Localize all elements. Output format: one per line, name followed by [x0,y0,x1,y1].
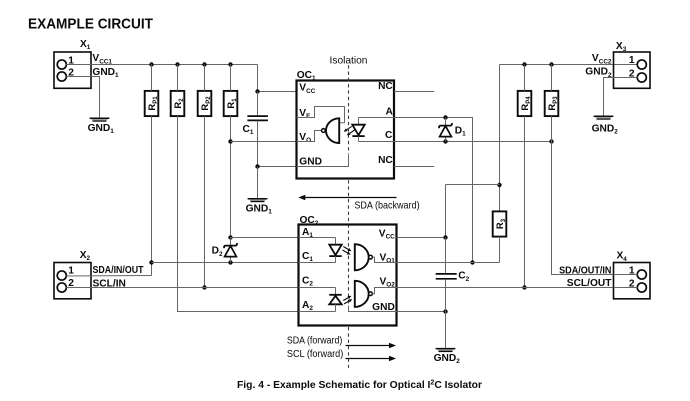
junction C1/GND line [255,164,259,168]
wire VCC2 rail [500,64,638,66]
pin number X3-2 [629,68,635,79]
gate OC2 bottom [355,281,369,307]
LED OC2 top [329,238,341,263]
pin label OC1 VCC [299,83,315,95]
pin circle X3-1 [637,60,646,69]
label X3 [616,41,627,53]
op-amp U1 optocoupler OC1 box [297,81,395,179]
label VCC2 net [592,53,612,65]
LED OC1 anode wire [359,117,395,119]
ground GND2 (X3) [592,116,619,135]
wire SCL out line [397,287,614,289]
wire OC2 GND out [397,311,446,313]
wire X1 pin2 to GND1 [66,77,99,118]
resistor RP4 [518,91,532,116]
wire RP1 top [151,65,153,91]
junction VCC1/RP2 [202,62,206,66]
wire C2 to GND2 symbol [445,312,447,348]
junction VCC1/C1 top [255,89,259,93]
resistor RP3 [545,91,559,116]
wire R1 bottom to A1 [230,116,232,237]
junction VCC2/RP4 [522,62,526,66]
svg-text:A: A [385,107,393,118]
wire RP2 top [204,65,206,91]
svg-text:SDA/IN/OUT: SDA/IN/OUT [93,265,145,276]
pin label OC2 A1 [302,227,313,239]
svg-text:NC: NC [378,81,393,92]
label D2 [212,246,223,258]
junction RP2/SCL line [202,285,206,289]
pin circle X4-1 [637,270,646,279]
pin circle X2-1 [57,271,66,280]
light arrows OC2 top [343,247,352,255]
wire OC2 C2 internal [299,287,336,289]
pin circle X1-1 [57,60,66,69]
junction C/D1 [443,139,447,143]
label X4 [617,251,628,263]
bubble OC2 bottom output [369,292,373,296]
svg-text:GND: GND [299,156,322,167]
wire RP4 bottom to SCL out [524,116,526,287]
wire VCC1 rail [66,64,257,66]
wire X4 pin1 internal [614,274,638,276]
junction VCC2/RP3 [549,62,553,66]
label OC2 [300,215,319,227]
label C2 [458,271,469,283]
wire OC1 VE loop [297,107,345,123]
wire C line [394,141,552,143]
pin label OC1 GND [299,156,322,167]
wire VCC1 to OC1 VCC pin [258,65,297,92]
wire OC2 VCC out [397,237,446,239]
wire OC2 C1 internal [299,262,336,264]
LED OC1 cathode wire [359,141,395,143]
label D1 [455,126,466,138]
pin label OC2 A2 [302,300,313,312]
pin number X4-2 [629,279,635,290]
svg-text:Isolation: Isolation [330,56,368,67]
diode D1 zener [439,118,452,142]
connector X1 [54,52,91,88]
wire X3 pin2 to GND2 [604,78,638,116]
wire branch to C2 column [446,185,500,238]
pin circle X2-2 [57,283,66,292]
pin label OC1 VE [299,108,311,120]
svg-text:SCL (forward): SCL (forward) [287,349,343,360]
junction VCC1/R2 [175,62,179,66]
label C1 [243,124,254,136]
wire R1 top [230,65,232,91]
connector X2 [54,263,91,299]
label SCL/IN [93,279,126,290]
wire OC2 GND internal [349,306,397,312]
junction C/RP3 [549,139,553,143]
pin number X4-1 [629,266,635,277]
pin circle X3-2 [637,73,646,82]
pin circle X1-2 [57,72,66,81]
label GND1 net [92,67,119,79]
pin label OC1 VO [299,132,311,144]
wire OC1 NC top stub [394,91,434,93]
label Isolation [330,56,368,67]
label VCC1 net [92,53,112,65]
light arrows OC2 bottom [343,296,352,304]
pin label OC2 C1 [302,251,313,263]
pin number X2-1 [68,266,74,277]
junction RP4/SCL out [522,285,526,289]
pin label OC2 VCC [379,228,395,240]
junction R1/VO line [228,139,232,143]
svg-text:GND1: GND1 [92,67,119,79]
label SDA (forward) [287,336,342,347]
wire R2 bottom to A2 [178,116,299,311]
label SDA (backward) [354,201,419,212]
label OC1 [297,70,316,82]
diode D2 zener [224,238,237,263]
junction A/D1 [443,115,447,119]
pin label OC1 C [385,130,393,141]
LED OC1 [352,118,364,142]
wire OC1 VO pin [231,141,297,143]
op-amp U2 optocoupler OC2 box [299,225,397,326]
junction D2/C1 line [228,260,232,264]
svg-text:C: C [385,130,393,141]
junction A/VO1 [470,260,474,264]
svg-text:GND1: GND1 [246,204,273,216]
wire OC2 A1 internal [299,237,336,239]
caption Fig. 4 [237,380,482,391]
junction VCC1/R1 [228,62,232,66]
LED OC2 bottom [329,288,341,312]
svg-text:EXAMPLE CIRCUIT: EXAMPLE CIRCUIT [28,15,153,32]
gate OC2 top [355,244,369,270]
wire RP4 top [524,65,526,91]
junction VCC1/RP1 [149,62,153,66]
wire X4 pin2 internal [614,287,638,289]
wire A line [394,118,473,263]
svg-text:GND2: GND2 [592,123,619,135]
junction C2/GND [443,309,447,313]
connector X4 [614,263,651,299]
pin number X2-2 [68,278,74,289]
junction VCC2/R3 branch [497,183,501,187]
gate OC1 detector [326,118,339,143]
junction R1/A1 line [228,235,232,239]
isolation barrier dashed line [348,65,350,368]
arrow SDA backward [298,195,396,200]
svg-text:SDA/OUT/IN: SDA/OUT/IN [559,265,611,276]
label SCL (forward) [287,349,343,360]
wire OC1 VO to bubble [297,131,322,142]
connector X3 [614,52,651,88]
label X1 [80,39,91,51]
wire RP3 top [551,65,553,91]
junction C2/VCC [443,235,447,239]
pin label OC1 NC top [378,81,393,92]
wire OC1 GND pin [258,166,297,168]
wire OC1 GND internal [297,155,349,167]
label X2 [80,250,91,262]
svg-text:1: 1 [629,55,635,66]
ground GND1 (C1) [246,199,273,216]
resistor RP2 [198,91,212,116]
bubble OC1 output [322,129,326,133]
label SDA/IN/OUT [93,265,145,276]
svg-text:NC: NC [378,155,393,166]
ground GND2 (C2) [434,349,461,366]
wire RP1 bottom to SDA [151,116,153,275]
label SCL/OUT [567,278,612,289]
title EXAMPLE CIRCUIT [28,15,153,32]
wire C1 to GND1 symbol [257,167,259,199]
arrow SCL forward [346,356,397,361]
ground GND1 (X1) [88,118,115,135]
svg-text:1: 1 [68,266,74,277]
svg-text:Fig. 4 - Example Schematic for: Fig. 4 - Example Schematic for Optical I… [237,380,482,391]
pin number X1-2 [68,68,74,79]
pin number X1-1 [68,55,74,66]
wire VO1 line [397,262,500,264]
resistor RP1 [145,91,159,116]
wire OC2 VO2 internal [372,288,396,294]
svg-text:GND1: GND1 [88,123,115,135]
label GND2 net [585,67,612,79]
wire SCL in [66,287,298,289]
pin label OC2 C2 [302,276,313,288]
svg-text:SDA (forward): SDA (forward) [287,336,342,347]
resistor R1 [224,91,238,116]
wire OC1 NC bottom stub [394,166,434,168]
arrow SDA forward [346,343,397,348]
svg-text:SDA (backward): SDA (backward) [354,201,419,212]
pin label OC2 GND [372,302,395,313]
wire RP3 bottom to SDA out [552,116,614,274]
wire OC2 VO1 internal [372,257,396,262]
label SDA/OUT/IN [559,265,611,276]
junction RP1/C1 line [149,260,153,264]
wire R3 bottom [499,237,501,263]
wire R2 top [177,65,179,91]
light arrows OC1 [344,126,355,135]
pin label OC2 VO1 [379,252,395,264]
pin circle X4-2 [637,283,646,292]
wire C1 line (SDA) [152,262,299,264]
wire VCC2 down to R3 [499,65,501,212]
wire A1 line [231,237,299,239]
wire RP2 bottom to SCL [204,116,206,287]
pin label OC1 NC bottom [378,155,393,166]
capacitor C2 [436,238,457,312]
resistor R2 [171,91,185,116]
wire SDA in [66,275,151,278]
pin number X3-1 [629,55,635,66]
pin label OC2 VO2 [379,276,395,288]
resistor R3 [493,211,507,236]
svg-text:GND2: GND2 [434,353,461,365]
pin label OC1 A [385,107,393,118]
wire OC2 A2 internal [299,311,336,313]
svg-text:SCL/OUT: SCL/OUT [567,278,612,289]
capacitor C1 [247,92,268,167]
bubble OC2 top output [369,255,373,259]
